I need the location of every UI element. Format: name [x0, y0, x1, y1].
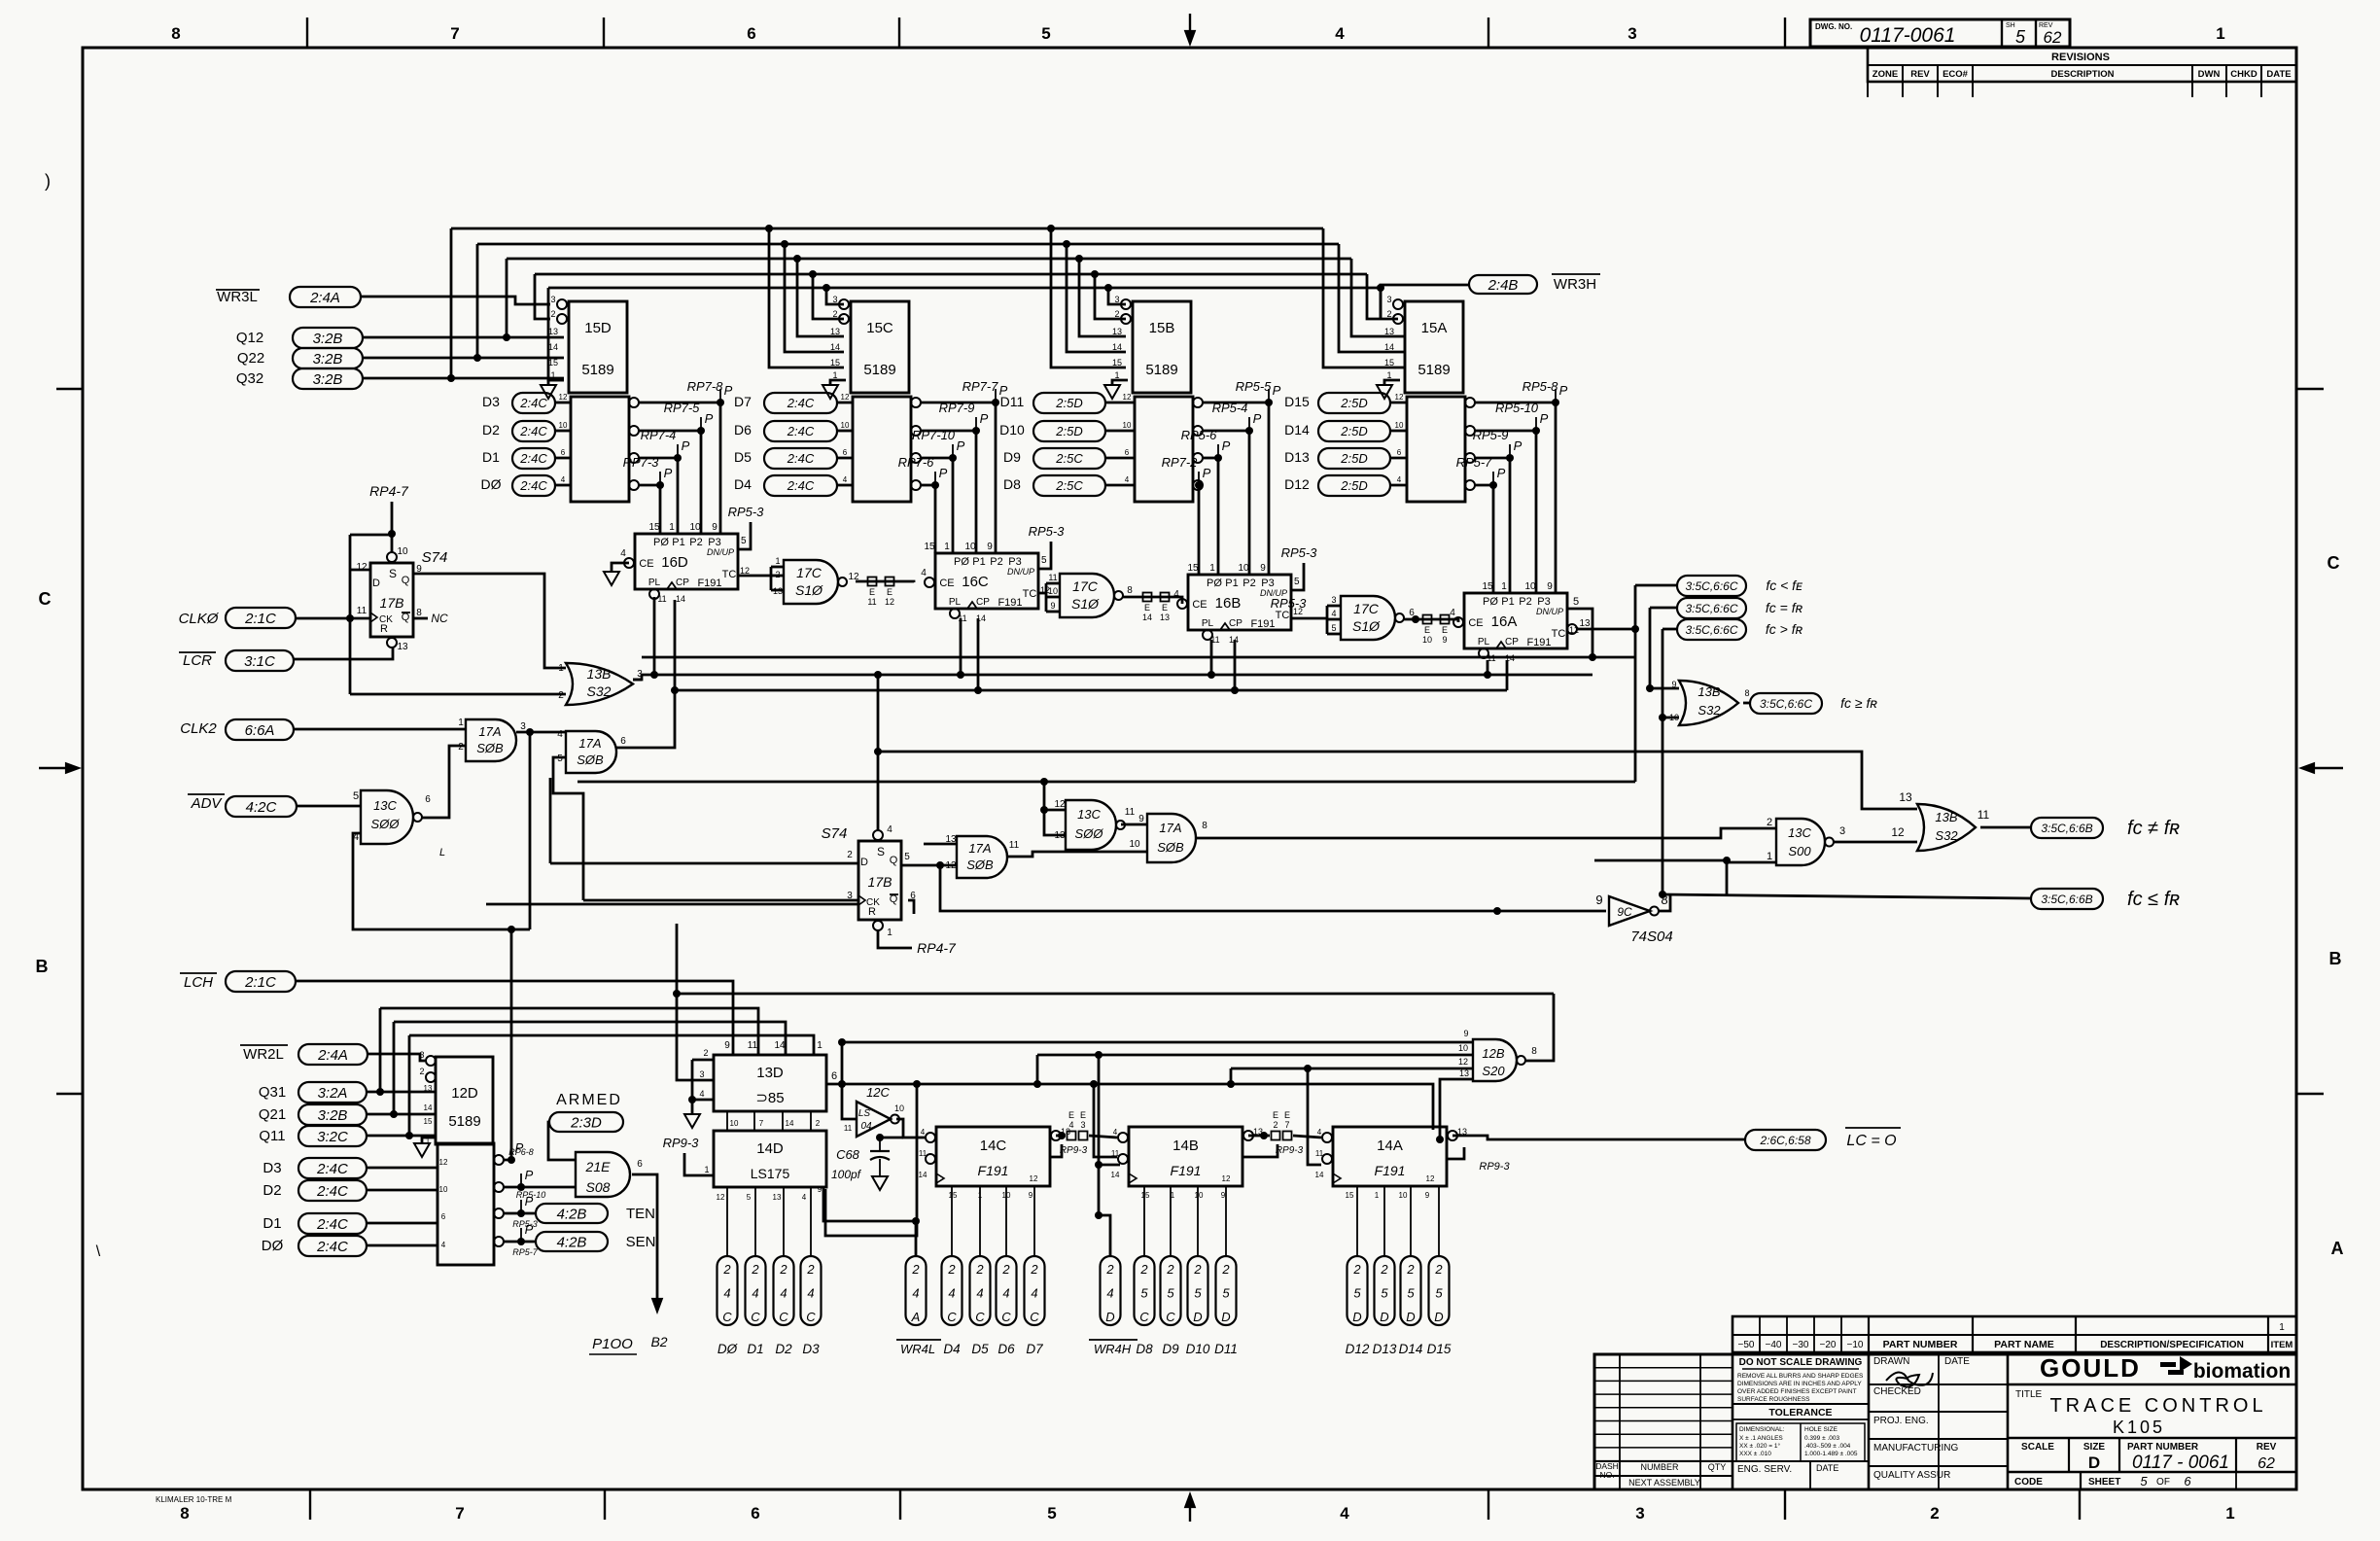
svg-text:1: 1	[887, 928, 892, 938]
svg-text:4: 4	[620, 548, 626, 559]
output pill fc>=fR	[1750, 693, 1822, 714]
svg-text:15C: 15C	[866, 320, 893, 336]
svg-text:14: 14	[786, 1119, 794, 1128]
RAM 15D left pin bubbles	[557, 299, 567, 309]
svg-text:REV: REV	[1910, 69, 1930, 80]
svg-text:17C: 17C	[1072, 578, 1099, 594]
svg-text:2: 2	[1166, 1262, 1174, 1277]
svg-text:S: S	[877, 845, 885, 858]
svg-text:10: 10	[1048, 586, 1058, 596]
connector pill D14 bottom group4	[1401, 1256, 1421, 1325]
svg-text:WR3L: WR3L	[217, 289, 258, 305]
svg-text:6:6A: 6:6A	[245, 722, 275, 739]
wire inverter out	[1659, 894, 1670, 911]
wire 17A1 out to 17A2	[516, 731, 566, 734]
svg-text:2:5D: 2:5D	[1340, 424, 1367, 438]
svg-text:2:3D: 2:3D	[570, 1114, 602, 1131]
RAM 15C left pin bubbles	[839, 299, 849, 309]
bus left drop verticals to 15D inputs	[450, 228, 453, 378]
svg-text:15: 15	[548, 358, 558, 368]
svg-text:HOLE SIZE: HOLE SIZE	[1804, 1426, 1838, 1433]
wire 12D out2 to 21E	[504, 1186, 576, 1189]
svg-text:RP5-8: RP5-8	[1522, 379, 1559, 394]
RP9-3 stub 14B	[1242, 1144, 1277, 1157]
wire bus drop to 15B pin at x=1097	[1063, 240, 1070, 248]
svg-text:DATE: DATE	[1816, 1463, 1838, 1473]
svg-text:DØ: DØ	[262, 1238, 284, 1254]
wire D1 lower	[367, 1222, 437, 1225]
svg-text:C68: C68	[836, 1147, 860, 1162]
svg-text:8: 8	[1531, 1046, 1537, 1057]
svg-text:1: 1	[2279, 1322, 2285, 1333]
svg-text:9: 9	[724, 1040, 730, 1051]
AND 17A S08 first	[466, 719, 516, 761]
svg-text:WR4L: WR4L	[900, 1342, 935, 1356]
svg-text:17B: 17B	[380, 595, 404, 611]
svg-text:fc ≠ fʀ: fc ≠ fʀ	[2127, 818, 2180, 839]
wire 14C bottom pin to connector at x=979	[951, 1186, 953, 1256]
svg-text:A: A	[2331, 1239, 2344, 1258]
svg-text:SEN: SEN	[626, 1234, 656, 1250]
wire 12B input 12 line	[1231, 1068, 1473, 1070]
counter 16D CE ground	[612, 563, 629, 572]
AND 21E S08	[576, 1152, 630, 1197]
wire 14D bottom pin 13 to connector	[783, 1187, 785, 1256]
svg-text:P2: P2	[1242, 578, 1255, 589]
svg-text:RP9-3: RP9-3	[663, 1136, 700, 1150]
svg-text:12: 12	[439, 1158, 448, 1167]
svg-text:5: 5	[1435, 1286, 1443, 1301]
pill LC=0	[1745, 1130, 1826, 1150]
right edge ticks and arrow	[2296, 388, 2324, 390]
wire 13B out to PL net	[633, 679, 642, 682]
svg-text:3:2B: 3:2B	[318, 1107, 348, 1124]
svg-text:2:4C: 2:4C	[787, 396, 815, 410]
title block main outline	[1594, 1354, 2296, 1489]
svg-text:1: 1	[1501, 581, 1507, 592]
wire 13C out to 13B ne	[1834, 841, 1917, 844]
svg-text:6: 6	[561, 448, 566, 457]
svg-text:17A: 17A	[1159, 821, 1181, 835]
svg-text:RP5-7: RP5-7	[1456, 455, 1493, 470]
svg-text:12: 12	[1458, 1057, 1468, 1067]
svg-text:D2: D2	[262, 1182, 281, 1199]
svg-text:15: 15	[1141, 1191, 1150, 1200]
RAM 15C lower data box	[853, 397, 911, 502]
svg-text:5: 5	[747, 1193, 752, 1202]
svg-text:11: 11	[844, 1124, 853, 1133]
svg-text:CP: CP	[976, 597, 990, 608]
svg-text:9: 9	[818, 1185, 822, 1194]
svg-text:13: 13	[1579, 618, 1591, 629]
svg-text:4: 4	[699, 1089, 704, 1099]
svg-text:B: B	[2329, 949, 2342, 968]
wire S74 label line to 13B2 input13	[878, 752, 1917, 809]
PL net risers	[653, 597, 656, 675]
connector pill D5 for RAM 15C	[764, 448, 837, 469]
svg-text:2: 2	[1767, 817, 1772, 828]
svg-text:DATE: DATE	[1944, 1356, 1970, 1367]
connector pill D8 for RAM 15B	[1033, 475, 1105, 496]
svg-text:4: 4	[948, 1286, 955, 1301]
svg-text:13: 13	[1899, 790, 1912, 804]
svg-text:13B: 13B	[1697, 684, 1720, 699]
wire CLK2 to 17A	[294, 728, 466, 731]
svg-text:DN/UP: DN/UP	[707, 547, 734, 557]
svg-text:D1: D1	[482, 449, 500, 465]
svg-text:2: 2	[911, 1262, 920, 1277]
svg-text:TRACE CONTROL: TRACE CONTROL	[2049, 1395, 2266, 1417]
OR 13B S32 ne	[1917, 804, 1976, 851]
svg-text:10: 10	[841, 421, 850, 430]
svg-text:14C: 14C	[980, 1138, 1007, 1154]
svg-text:C: C	[722, 1310, 732, 1324]
OR 13B S32 ge	[1679, 681, 1738, 725]
svg-text:D2: D2	[482, 422, 500, 438]
svg-text:8: 8	[416, 608, 422, 618]
svg-text:ADV: ADV	[191, 795, 224, 812]
OR gate 13B S32	[566, 663, 633, 705]
svg-text:B: B	[36, 957, 49, 976]
svg-text:5: 5	[1294, 577, 1300, 587]
svg-text:P: P	[1559, 383, 1568, 398]
connector pill D3 bottom group1	[801, 1256, 822, 1325]
svg-text:2:4C: 2:4C	[316, 1216, 348, 1233]
svg-text:2: 2	[550, 309, 555, 319]
svg-text:12: 12	[1030, 1174, 1038, 1183]
svg-text:3: 3	[1080, 1120, 1085, 1130]
connector pill D12 bottom group4	[1347, 1256, 1368, 1325]
svg-text:10: 10	[559, 421, 568, 430]
svg-text:12D: 12D	[451, 1085, 478, 1102]
RAM 15B data output row 1 wire and pullup	[1193, 398, 1203, 407]
svg-text:3:2A: 3:2A	[318, 1085, 348, 1102]
svg-text:S32: S32	[1697, 703, 1721, 718]
revisions table	[1868, 48, 2296, 82]
svg-text:D2: D2	[775, 1342, 792, 1356]
RAM 15A 5189 upper	[1405, 301, 1463, 393]
svg-text:SCALE: SCALE	[2021, 1442, 2054, 1453]
svg-text:DO NOT SCALE DRAWING: DO NOT SCALE DRAWING	[1739, 1357, 1863, 1368]
svg-text:S08: S08	[586, 1179, 611, 1195]
svg-text:P: P	[1253, 411, 1262, 426]
svg-text:REMOVE ALL BURRS AND SHARP EDG: REMOVE ALL BURRS AND SHARP EDGES	[1737, 1373, 1864, 1380]
sheet centerline arrow bottom	[1189, 1497, 1191, 1522]
svg-text:−10: −10	[1847, 1340, 1864, 1350]
svg-text:0117-0061: 0117-0061	[1860, 24, 1956, 47]
svg-text:2: 2	[1380, 1262, 1388, 1277]
connector pill D2 bottom group1	[774, 1256, 794, 1325]
wire 14A bottom pin to connector at x=1480	[1438, 1186, 1440, 1256]
svg-text:2: 2	[1139, 1262, 1148, 1277]
svg-text:9: 9	[1463, 1029, 1468, 1038]
svg-text:11: 11	[748, 1040, 758, 1051]
svg-text:17B: 17B	[868, 874, 892, 890]
svg-text:4: 4	[1031, 1286, 1037, 1301]
svg-text:RP7-6: RP7-6	[898, 455, 935, 470]
svg-text:3: 3	[637, 669, 643, 680]
svg-text:D5: D5	[734, 449, 752, 465]
wire Q11	[367, 1135, 436, 1138]
connector pill D2 for RAM 15D	[512, 421, 555, 441]
svg-text:7: 7	[450, 24, 459, 43]
svg-text:S1Ø: S1Ø	[795, 582, 823, 598]
svg-text:7: 7	[455, 1504, 464, 1523]
svg-text:3: 3	[520, 721, 526, 732]
svg-text:2:5C: 2:5C	[1055, 478, 1083, 493]
svg-text:6: 6	[747, 24, 755, 43]
svg-text:−20: −20	[1820, 1340, 1837, 1350]
connector pill D10 for RAM 15B	[1033, 421, 1105, 441]
RP9-3 stub 14C	[1050, 1144, 1062, 1157]
svg-text:fc ≥ fʀ: fc ≥ fʀ	[1840, 695, 1877, 711]
wire 14B bottom pin to connector at x=1232	[1197, 1186, 1199, 1256]
svg-text:F191: F191	[1375, 1163, 1406, 1178]
svg-text:15B: 15B	[1149, 320, 1175, 336]
RAM 12D 5189 upper	[436, 1057, 493, 1144]
svg-text:10: 10	[1458, 1043, 1468, 1053]
wire 13D out line y1112	[826, 1084, 1433, 1130]
connector pill D8 bottom group3	[1135, 1256, 1155, 1325]
svg-text:fc = fʀ: fc = fʀ	[1766, 600, 1803, 615]
svg-text:CE: CE	[939, 578, 954, 589]
svg-text:SH: SH	[2006, 22, 2015, 29]
svg-text:LS175: LS175	[751, 1166, 790, 1181]
svg-text:11: 11	[1977, 808, 1990, 822]
svg-text:RP9-3: RP9-3	[1479, 1161, 1510, 1173]
svg-text:2: 2	[722, 1262, 731, 1277]
svg-text:4: 4	[887, 824, 892, 835]
svg-text:16D: 16D	[661, 554, 688, 571]
connector pill DØ for RAM 15D	[512, 475, 555, 496]
svg-text:PL: PL	[949, 597, 962, 608]
wire 13C2 out to 17A4	[1121, 823, 1147, 826]
RAM 15B 5189 upper	[1133, 301, 1191, 393]
svg-text:14: 14	[548, 342, 558, 352]
wire Q22	[363, 357, 564, 360]
bus right drop verticals to 15A inputs	[1323, 228, 1405, 368]
svg-text:CHKD: CHKD	[2230, 69, 2257, 80]
svg-text:Q32: Q32	[236, 370, 263, 387]
wire 13B ne out	[1980, 826, 2031, 829]
svg-text:DWN: DWN	[2198, 69, 2221, 80]
svg-text:P2: P2	[1519, 596, 1531, 608]
svg-text:S74: S74	[422, 549, 448, 566]
svg-text:P2: P2	[689, 537, 702, 548]
svg-text:74S04: 74S04	[1630, 928, 1672, 945]
svg-text:10: 10	[439, 1185, 448, 1194]
svg-text:P: P	[1273, 383, 1281, 398]
wire CLK0 to CK	[296, 617, 370, 620]
svg-text:8: 8	[171, 24, 180, 43]
svg-text:3:5C,6:6C: 3:5C,6:6C	[1685, 623, 1737, 637]
svg-text:2: 2	[1001, 1262, 1010, 1277]
svg-text:10: 10	[1195, 1191, 1204, 1200]
svg-text:10: 10	[894, 1103, 904, 1113]
svg-text:MANUFACTURING: MANUFACTURING	[1873, 1443, 1958, 1453]
svg-text:RP4-7: RP4-7	[369, 483, 409, 499]
svg-text:−50: −50	[1738, 1340, 1755, 1350]
svg-text:D7: D7	[734, 394, 752, 409]
svg-text:4: 4	[802, 1193, 807, 1202]
svg-text:2:5D: 2:5D	[1340, 451, 1367, 466]
wire bus drop to 15C pin at x=807	[781, 240, 788, 248]
svg-text:2:4C: 2:4C	[519, 478, 547, 493]
svg-text:4: 4	[912, 1286, 919, 1301]
svg-text:9: 9	[1671, 680, 1676, 689]
svg-text:D9: D9	[1162, 1342, 1179, 1356]
svg-text:4: 4	[752, 1286, 758, 1301]
NAND 17C S10	[784, 560, 838, 604]
svg-text:WR4H: WR4H	[1094, 1342, 1132, 1356]
svg-text:0117 - 0061: 0117 - 0061	[2132, 1453, 2229, 1473]
svg-text:D10: D10	[1186, 1342, 1210, 1356]
svg-text:E: E	[1273, 1110, 1278, 1120]
RAM 15C 5189 upper	[851, 301, 909, 393]
svg-text:2: 2	[1114, 309, 1119, 319]
svg-text:6: 6	[751, 1504, 759, 1523]
svg-text:2:4A: 2:4A	[309, 290, 340, 306]
svg-text:RP5-3: RP5-3	[1271, 596, 1308, 611]
svg-text:DWG. NO.: DWG. NO.	[1815, 22, 1852, 31]
svg-text:P: P	[705, 411, 714, 426]
svg-text:2:4C: 2:4C	[787, 451, 815, 466]
svg-text:DESCRIPTION: DESCRIPTION	[2051, 69, 2115, 80]
svg-text:4: 4	[1335, 24, 1345, 43]
svg-text:13B: 13B	[1935, 810, 1957, 824]
AND 17A fourth	[1147, 814, 1196, 862]
svg-text:2:5D: 2:5D	[1340, 396, 1367, 410]
svg-text:P1: P1	[672, 537, 684, 548]
svg-text:CE: CE	[639, 558, 653, 570]
svg-text:2:1C: 2:1C	[244, 974, 276, 991]
svg-text:RP7-10: RP7-10	[912, 428, 956, 442]
svg-text:1: 1	[1767, 851, 1772, 862]
svg-text:CP: CP	[676, 578, 689, 588]
svg-text:C: C	[1139, 1310, 1149, 1324]
svg-text:LCR: LCR	[183, 652, 212, 669]
wire bus drop to 15C pin at x=836	[809, 270, 817, 278]
svg-text:PØ: PØ	[1483, 596, 1498, 608]
svg-text:4: 4	[1068, 1120, 1073, 1130]
svg-text:D9: D9	[1003, 449, 1021, 465]
svg-text:Q: Q	[890, 855, 898, 866]
wire 14B TC to E squares to 14A CE	[1248, 1135, 1270, 1138]
svg-text:RP5-7: RP5-7	[512, 1247, 539, 1257]
wire 16B TC to 17C#3 inputs	[1292, 617, 1327, 620]
RAM 15A lower data box	[1407, 397, 1465, 502]
connector pill D4 for RAM 15C	[764, 475, 837, 496]
svg-text:14A: 14A	[1377, 1138, 1403, 1154]
svg-text:ECO#: ECO#	[1942, 69, 1969, 80]
top address bus lines	[451, 228, 1323, 230]
wire WR4H riser	[1099, 1215, 1110, 1256]
svg-text:3: 3	[1627, 24, 1636, 43]
wire ADV to 13C	[297, 805, 361, 808]
svg-text:13B: 13B	[587, 666, 612, 682]
wire 17B2 Qbar loop to 17A2 pin5	[908, 900, 914, 914]
svg-text:TITLE: TITLE	[2015, 1389, 2043, 1400]
svg-text:DRAWN: DRAWN	[1873, 1356, 1909, 1367]
drawing number block	[1810, 19, 2070, 47]
svg-text:2: 2	[1105, 1262, 1114, 1277]
connector pill D13 bottom group4	[1375, 1256, 1395, 1325]
svg-text:8: 8	[1744, 688, 1749, 698]
RAM 15D 5189 upper	[569, 301, 627, 393]
svg-text:PØ: PØ	[653, 537, 669, 548]
svg-text:fc < fᴇ: fc < fᴇ	[1766, 578, 1802, 593]
connector pill D1 for RAM 15D	[512, 448, 555, 469]
counter 14C F191	[936, 1127, 1050, 1186]
NAND 13C S00 advance	[361, 790, 413, 844]
svg-text:SØB: SØB	[1157, 840, 1184, 855]
svg-text:12: 12	[559, 393, 568, 402]
svg-text:P1: P1	[1225, 578, 1238, 589]
counter 16B RP5-3 pullup	[1291, 563, 1304, 590]
svg-text:RP5-6: RP5-6	[1181, 428, 1218, 442]
wire 13C pin4 net	[353, 833, 530, 929]
wire 12B input 9 line	[842, 1041, 1473, 1044]
RAM 15D data output row 4 wire and pullup	[629, 480, 639, 490]
svg-text:2:1C: 2:1C	[244, 611, 276, 627]
svg-text:REV: REV	[2257, 1442, 2277, 1453]
svg-text:D10: D10	[999, 422, 1025, 438]
inverter 12C LS04	[857, 1102, 891, 1137]
svg-text:5: 5	[2015, 27, 2026, 47]
svg-text:6: 6	[831, 1070, 837, 1082]
svg-text:2:4C: 2:4C	[519, 451, 547, 466]
svg-text:2: 2	[458, 742, 464, 753]
svg-text:3: 3	[1839, 825, 1845, 837]
svg-text:6: 6	[441, 1212, 446, 1221]
wire LCR to 17B reset	[294, 648, 393, 659]
wire pill2 riser	[1650, 607, 1677, 610]
wire Q21	[367, 1113, 436, 1116]
svg-text:2: 2	[1386, 309, 1391, 319]
wire Q12	[363, 336, 564, 339]
svg-text:11: 11	[1009, 840, 1020, 851]
svg-text:9: 9	[1595, 893, 1602, 907]
output pill fc<=fR	[2031, 889, 2103, 909]
sheet centerline arrow top	[1189, 14, 1191, 41]
svg-text:9: 9	[987, 542, 993, 552]
svg-text:5: 5	[1407, 1286, 1415, 1301]
svg-text:15: 15	[424, 1117, 433, 1126]
svg-text:6: 6	[1125, 448, 1130, 457]
svg-text:Q22: Q22	[237, 350, 264, 367]
svg-text:2: 2	[558, 690, 564, 701]
wire 12B input 10 line	[1037, 1054, 1473, 1057]
svg-text:1: 1	[2225, 1504, 2234, 1523]
wire 21E out arrow to P100	[632, 1174, 657, 1308]
wire 17B2 CK input	[486, 903, 858, 906]
svg-text:D15: D15	[1427, 1342, 1452, 1356]
wire bus drop to 15B pin at x=1110	[1075, 255, 1083, 263]
svg-text:ENG. SERV.: ENG. SERV.	[1737, 1464, 1792, 1475]
svg-text:SURFACE ROUGHNESS: SURFACE ROUGHNESS	[1737, 1396, 1810, 1403]
svg-text:62: 62	[2257, 1455, 2275, 1472]
parts list header	[1732, 1316, 2296, 1352]
wire inverter input	[1493, 907, 1501, 915]
RAM 15D data output row 2 wire and pullup	[629, 426, 639, 436]
16A RC output	[1567, 624, 1577, 634]
svg-text:3:5C,6:6C: 3:5C,6:6C	[1760, 697, 1812, 711]
svg-text:K105: K105	[2113, 1418, 2165, 1437]
svg-text:D3: D3	[262, 1160, 281, 1176]
svg-text:13: 13	[548, 327, 558, 336]
svg-text:5: 5	[2140, 1474, 2148, 1488]
svg-text:15: 15	[1346, 1191, 1354, 1200]
